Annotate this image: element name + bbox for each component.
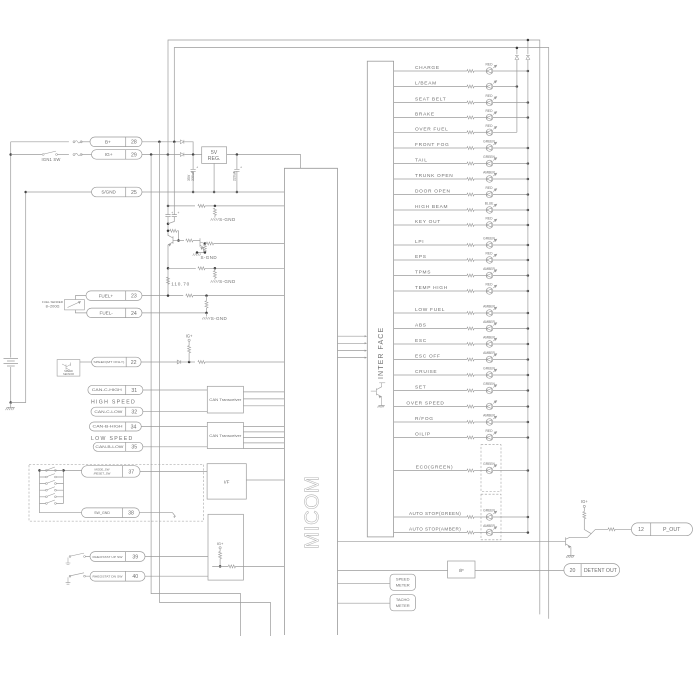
node rail A top: [516, 47, 519, 50]
wire CRUISE: [394, 374, 467, 376]
svg-text:CAN-C-LOW: CAN-C-LOW: [94, 410, 123, 414]
wire ESC OFF: [394, 359, 467, 361]
svg-text:40: 40: [132, 574, 138, 580]
wire cap leg: [173, 142, 175, 215]
svg-text:B+: B+: [105, 140, 111, 146]
svg-text:CAN Transceiver: CAN Transceiver: [209, 398, 242, 402]
wire to rail: [493, 194, 528, 196]
wire to MICOM: [205, 205, 284, 207]
resistor R BRAKE: [467, 116, 474, 119]
svg-text:34: 34: [131, 424, 137, 430]
ground arrow SW_GND: [174, 516, 176, 518]
IC U1 MICOM: [284, 168, 337, 635]
connector pin 40: [90, 571, 145, 581]
wire: [474, 70, 486, 72]
svg-text:FRONT FOG: FRONT FOG: [415, 142, 449, 148]
wire to MICOM: [205, 267, 284, 269]
LED DOOR OPEN (RED): [486, 189, 497, 198]
svg-text:28: 28: [131, 140, 137, 146]
wire IG+ bus down: [151, 155, 241, 637]
svg-text:330uF: 330uF: [191, 171, 195, 181]
diode D4: [515, 56, 519, 60]
CAN transceiver U4: [207, 422, 243, 448]
wire: [243, 405, 284, 407]
LED FRONT FOG (GREEN): [486, 142, 497, 151]
node rail B top: [527, 39, 530, 42]
wire SET: [394, 390, 467, 392]
wire rail A: [516, 60, 518, 133]
wire S/GND to ground: [11, 192, 26, 403]
node rail: [527, 531, 530, 534]
node rail: [527, 178, 530, 181]
wire ESC: [394, 343, 467, 345]
wire to tacho meter: [338, 602, 391, 604]
svg-text:SEAT BELT: SEAT BELT: [415, 97, 446, 103]
wire to rail: [493, 163, 528, 165]
node rail: [527, 193, 530, 196]
node: [204, 251, 207, 254]
capacitor C4: [172, 215, 177, 217]
resistor R LOW FUEL: [467, 312, 474, 315]
node rail: [527, 116, 530, 119]
wire: [474, 532, 486, 534]
wire to rail: [493, 70, 528, 72]
node rail: [527, 290, 530, 293]
connector pin 39: [90, 552, 145, 562]
node: [214, 267, 217, 270]
wire to rail: [493, 312, 528, 314]
ground S-GND: [202, 317, 210, 319]
ground battery: [6, 407, 15, 410]
wire to rail: [493, 532, 528, 534]
battery B1: [4, 359, 19, 367]
node rail: [527, 469, 530, 472]
svg-text:RED: RED: [486, 186, 494, 190]
wire LOW FUEL: [394, 312, 467, 314]
wire S/GND feed: [26, 191, 92, 193]
svg-text:TACHO: TACHO: [396, 597, 410, 602]
wire B+ top rail: [174, 48, 548, 619]
svg-text:LOW FUEL: LOW FUEL: [415, 307, 445, 313]
wire rail B: [527, 40, 529, 54]
wire: [142, 312, 207, 314]
node: [214, 205, 217, 208]
svg-text:SET: SET: [415, 385, 426, 391]
node reg input: [192, 153, 195, 156]
svg-text:CRUISE: CRUISE: [415, 369, 437, 375]
svg-text:29: 29: [131, 152, 137, 158]
resistor R TPMS: [467, 274, 474, 277]
LED ESC (AMBER): [486, 338, 497, 347]
svg-text:RED: RED: [486, 252, 494, 256]
svg-text:GREEN: GREEN: [483, 155, 495, 159]
wire to rail: [493, 374, 528, 376]
wire to MICOM: [236, 565, 285, 567]
interface box I/F: [207, 464, 246, 499]
svg-text:39: 39: [132, 554, 138, 560]
wire SW_GND: [139, 513, 175, 517]
resistor R TEMP HIGH: [467, 290, 474, 293]
resistor R SET: [467, 389, 474, 392]
svg-text:S-GND: S-GND: [211, 316, 228, 321]
IG+ tap: [219, 547, 221, 549]
wire CAN-B-HIGH: [141, 426, 207, 428]
node: [192, 191, 195, 194]
node: [196, 251, 199, 254]
node: [167, 267, 170, 270]
wire switch left bus: [40, 470, 82, 512]
LED EPS (RED): [486, 254, 497, 263]
wire data: [338, 335, 367, 337]
wire: [474, 312, 486, 314]
node rail: [527, 101, 530, 104]
LED SET (GREEN): [486, 385, 497, 394]
switch SW4: [46, 489, 48, 491]
diode D1: [180, 140, 184, 144]
svg-text:DOOR OPEN: DOOR OPEN: [415, 189, 451, 195]
wire to DETENT OUT: [475, 570, 564, 572]
svg-text:RHEOSTAT DN SW: RHEOSTAT DN SW: [93, 575, 124, 579]
ground S-GND: [211, 280, 219, 282]
svg-text:SENSOR: SENSOR: [63, 372, 74, 376]
LED ECO(GREEN) (GREEN): [486, 465, 497, 474]
resistor R EPS: [467, 259, 474, 262]
svg-text:HIGH BEAM: HIGH BEAM: [415, 204, 448, 210]
node: [205, 294, 208, 297]
svg-text:SPEED: SPEED: [396, 577, 410, 582]
svg-text:RED: RED: [486, 429, 494, 433]
resistor R5: [186, 239, 193, 242]
resistor R14: [188, 346, 191, 353]
wire to rail: [493, 224, 528, 226]
wire B+ to reg node: [184, 142, 193, 155]
resistor R7: [206, 242, 213, 245]
tacho meter box: [390, 595, 416, 611]
wire switch right bus: [63, 470, 65, 503]
svg-text:12: 12: [638, 527, 644, 533]
resistor R CRUISE: [467, 374, 474, 377]
node: [236, 191, 239, 194]
node rail: [527, 327, 530, 330]
wire: [40, 496, 64, 498]
IG+ tap: [583, 505, 585, 507]
wire B+: [142, 141, 180, 143]
wire: [188, 353, 190, 362]
diode D3: [177, 360, 181, 364]
svg-text:GREEN: GREEN: [483, 462, 495, 466]
svg-text:S-GND: S-GND: [219, 217, 236, 222]
svg-text:L/BEAM: L/BEAM: [415, 81, 437, 87]
speed sensor box: [57, 360, 80, 377]
wire to P_OUT: [615, 528, 631, 530]
wire DOOR OPEN: [394, 194, 467, 196]
LED TRUNK OPEN (AMBER): [486, 173, 497, 182]
node cap join: [167, 222, 170, 225]
wire: [214, 278, 216, 280]
svg-text:RED: RED: [486, 94, 494, 98]
wire: [243, 448, 284, 450]
wire: [474, 131, 486, 133]
switch SW2: [46, 476, 48, 478]
wire to rail: [493, 244, 528, 246]
wire data: [338, 342, 367, 344]
wire: [236, 155, 238, 170]
svg-text:+: +: [196, 166, 198, 170]
node battery ground: [9, 401, 12, 404]
svg-text:RED: RED: [486, 217, 494, 221]
node 5V out: [236, 153, 239, 156]
node IG+ rail: [167, 153, 170, 156]
svg-text:GREEN: GREEN: [483, 509, 495, 513]
wire HIGH BEAM: [394, 209, 467, 211]
wire: [219, 559, 221, 567]
wire FRONT FOG: [394, 147, 467, 149]
wire: [193, 240, 200, 242]
wire: [474, 374, 486, 376]
wire: [584, 519, 608, 530]
LED LPI (GREEN): [486, 239, 497, 248]
resistor R11: [186, 294, 193, 297]
wire to rail: [493, 516, 528, 518]
arrowhead: [365, 335, 368, 337]
svg-text:AMBER: AMBER: [483, 351, 495, 355]
svg-text:IG+: IG+: [217, 541, 224, 546]
wire to rail: [493, 343, 528, 345]
wire: [474, 421, 486, 423]
regulator U2 5V REG.: [202, 147, 227, 164]
wire: [474, 102, 486, 104]
resistor R SEAT BELT: [467, 101, 474, 104]
wire MODE_SW to I/F: [140, 470, 207, 472]
wire AUTO STOP(AMBER): [394, 532, 467, 534]
wire CAN-C-LOW: [143, 411, 207, 413]
node B+ rail: [173, 141, 176, 144]
svg-text:GREEN: GREEN: [483, 140, 495, 144]
capacitor C3: [165, 215, 170, 217]
wire to rail: [493, 328, 528, 330]
dashed enclosure switch block: [29, 464, 204, 521]
node rail: [527, 244, 530, 247]
LED OVER SPEED: [486, 401, 497, 410]
wire: [583, 508, 585, 512]
resistor R9: [213, 271, 216, 278]
resistor R KEY OUT: [467, 224, 474, 227]
connector pin 37 MODE_SW/RESET_SW: [82, 466, 141, 478]
wire: [70, 557, 90, 558]
node T1 base: [177, 239, 180, 242]
wire to MICOM: [193, 295, 284, 297]
svg-text:S/GND: S/GND: [101, 190, 116, 195]
svg-text:I/F: I/F: [459, 568, 465, 573]
svg-text:8~200Ω: 8~200Ω: [46, 304, 60, 309]
connector pin 23 FUEL+: [86, 291, 142, 301]
wire: [192, 171, 194, 192]
wire: [474, 328, 486, 330]
wire SEAT BELT: [394, 102, 467, 104]
node rail: [527, 259, 530, 262]
wire DETENT: [338, 570, 448, 572]
svg-text:METER: METER: [396, 603, 410, 608]
wire battery -: [10, 367, 12, 403]
resistor R CHARGE: [467, 70, 474, 73]
svg-text:ABS: ABS: [415, 323, 427, 329]
LED BRAKE (RED): [486, 112, 497, 121]
wire MODE_SW: [40, 469, 82, 471]
wire EPS: [394, 259, 467, 261]
resistor R ESC: [467, 343, 474, 346]
wire TRUNK OPEN: [394, 178, 467, 180]
node: [205, 312, 208, 315]
resistor R R/FOG: [467, 421, 474, 424]
svg-text:RED: RED: [486, 109, 494, 113]
wire: [474, 117, 486, 119]
svg-text:IG+: IG+: [581, 499, 588, 504]
svg-text:5V: 5V: [211, 150, 218, 156]
svg-text:CAN-B-LOW: CAN-B-LOW: [95, 445, 124, 449]
wire to pull-up box: [145, 556, 208, 558]
svg-text:+: +: [240, 166, 242, 170]
svg-text:SPEED(MT ONLY): SPEED(MT ONLY): [93, 360, 124, 364]
svg-text:BRAKE: BRAKE: [415, 112, 435, 118]
resistor R17: [583, 512, 586, 519]
svg-text:CHARGE: CHARGE: [415, 65, 440, 71]
LED HIGH BEAM (BLUE): [486, 204, 497, 213]
node: [219, 565, 222, 568]
wire IGN feed: [11, 154, 42, 156]
wire TAIL: [394, 163, 467, 165]
svg-text:BLUE: BLUE: [485, 202, 494, 206]
node Q2 collector: [204, 242, 207, 245]
wire: [206, 296, 208, 313]
wire to rail: [493, 178, 528, 180]
wire bus B+d: [167, 142, 169, 215]
svg-text:FUEL-: FUEL-: [100, 311, 114, 316]
wire to Q4 base: [338, 540, 566, 542]
wire: [219, 549, 221, 552]
resistor R OVER FUEL: [467, 131, 474, 134]
svg-text:AMBER: AMBER: [483, 414, 495, 418]
svg-text:TAIL: TAIL: [415, 158, 428, 164]
resistor R OVER SPEED: [467, 405, 474, 408]
svg-text:AMBER: AMBER: [483, 320, 495, 324]
wire: [192, 155, 194, 170]
svg-text:S-GND: S-GND: [219, 279, 236, 284]
wire: [81, 154, 91, 156]
node: [38, 469, 41, 472]
switch rheostat 40: [66, 577, 71, 584]
node: [167, 230, 170, 233]
node rail: [527, 70, 530, 73]
wire: [179, 240, 185, 242]
wire L/BEAM: [394, 86, 467, 88]
connector pin 20 DETENT OUT: [564, 564, 620, 577]
node rail: [527, 274, 530, 277]
ground: [377, 405, 384, 407]
wire B+ bus down: [159, 142, 270, 636]
resistor R AUTO STOP(AMBER): [467, 531, 474, 534]
transistor Q3: [371, 383, 385, 405]
arrowhead: [365, 342, 368, 344]
svg-text:R/FOG: R/FOG: [415, 416, 434, 422]
wire bus to FUEL+: [167, 245, 169, 295]
svg-text:KEY OUT: KEY OUT: [415, 219, 441, 225]
svg-text:/RESET_SW: /RESET_SW: [94, 471, 111, 475]
wire IG+ top rail: [168, 40, 540, 614]
switch SW39: [69, 556, 71, 558]
svg-text:32: 32: [131, 410, 137, 416]
wire: [40, 476, 64, 478]
svg-text:ECO(GREEN): ECO(GREEN): [416, 465, 454, 471]
LED L/BEAM: [486, 81, 497, 90]
svg-text:AUTO STOP(AMBER): AUTO STOP(AMBER): [409, 527, 461, 532]
resistor R15: [219, 552, 222, 559]
wire: [177, 231, 179, 241]
connector pin 35 CAN-B-LOW: [93, 442, 143, 451]
LED KEY OUT (RED): [486, 219, 497, 228]
wire: [168, 217, 174, 224]
wire data: [338, 350, 367, 352]
wire: [474, 516, 486, 518]
resistor R ABS: [467, 327, 474, 330]
wire: [70, 576, 90, 577]
node rail: [527, 224, 530, 227]
CAN transceiver U3: [207, 386, 243, 413]
LED TPMS (AMBER): [486, 270, 497, 279]
svg-text:GREEN: GREEN: [483, 237, 495, 241]
svg-text:37: 37: [128, 469, 134, 475]
wire: [474, 259, 486, 261]
svg-text:TRUNK OPEN: TRUNK OPEN: [415, 173, 453, 179]
arrowhead: [365, 350, 368, 352]
node rail: [527, 421, 530, 424]
LED SEAT BELT (RED): [486, 97, 497, 106]
node rail: [527, 389, 530, 392]
svg-text:38: 38: [128, 511, 134, 517]
LED CRUISE (GREEN): [486, 369, 497, 378]
wire to rail: [493, 117, 528, 119]
LED AUTO STOP(AMBER) (AMBER): [486, 527, 497, 536]
wire: [75, 310, 86, 313]
wire 5V to MICOM: [227, 155, 301, 169]
svg-text:24: 24: [131, 311, 137, 317]
svg-text:IG+: IG+: [186, 333, 193, 338]
svg-text:INTER FACE: INTER FACE: [378, 327, 385, 379]
svg-text:31: 31: [131, 388, 137, 394]
wire: [81, 141, 90, 143]
wire: [40, 469, 64, 471]
wire: [214, 205, 216, 208]
svg-text:REG.: REG.: [208, 156, 221, 162]
connector pin 22 SPEED: [92, 357, 142, 367]
capacitor C2 220uF: [234, 169, 239, 171]
wire: [40, 483, 64, 485]
node B+ bus: [158, 141, 161, 144]
wire OVER SPEED: [394, 406, 467, 408]
resistor R TRUNK OPEN: [467, 178, 474, 181]
ground S-GND: [211, 218, 219, 220]
node rail: [527, 436, 530, 439]
connector pin 32 CAN-C-LOW: [91, 407, 143, 416]
LED CHARGE (RED): [486, 65, 497, 74]
switch SW5: [46, 496, 48, 498]
node rail: [516, 85, 519, 88]
wire LPI: [394, 244, 467, 246]
connector pin 28 B+: [90, 137, 142, 147]
node rail: [527, 516, 530, 519]
resistor R L/BEAM: [467, 85, 474, 88]
svg-text:RED: RED: [486, 63, 494, 67]
wire to rail: [493, 102, 528, 104]
